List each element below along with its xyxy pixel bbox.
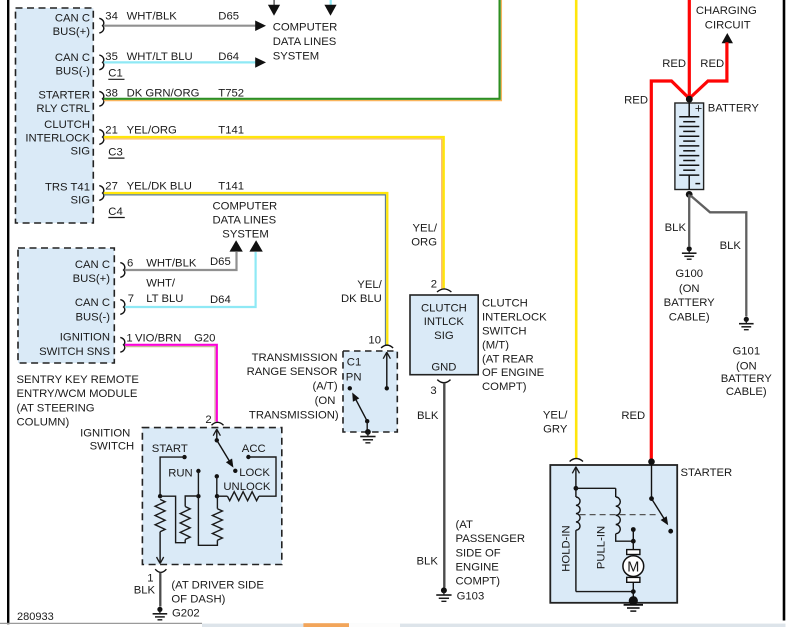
TRS connector C1 / PN labels [346,356,362,383]
wire 6 WHT/BLK D65 [125,252,237,270]
svg-text:CABLE): CABLE) [669,311,710,323]
pin 6 [120,263,124,278]
svg-text:SYSTEM: SYSTEM [273,51,319,63]
svg-text:LT BLU: LT BLU [146,293,183,305]
contact LOCK [233,467,270,479]
node: CHARGING CIRCUIT [696,5,757,31]
svg-text:3: 3 [430,385,436,397]
ignition switch box [142,428,281,565]
TRS PN contact [348,386,352,390]
svg-text:TRANSMISSION): TRANSMISSION) [249,409,339,421]
svg-text:WHT/LT BLU: WHT/LT BLU [127,51,193,63]
svg-text:OF ENGINE: OF ENGINE [482,367,545,379]
wire motor/hold-in to ground [576,589,636,601]
svg-text:YEL/ORG: YEL/ORG [127,125,177,137]
bottom edge line [0,622,202,624]
wire RED battery to starter [621,81,689,460]
clutch interlock switch box [410,295,478,375]
wire 7 WHT/LT BLU D64 [125,252,256,307]
ground G100 [675,246,703,280]
svg-text:BLK: BLK [665,222,687,234]
hold-in coil L1 [576,488,580,591]
svg-text:YEL/: YEL/ [543,409,568,421]
svg-text:27: 27 [105,181,118,193]
svg-text:D64: D64 [210,294,231,306]
caption G101 on battery cable [721,360,773,398]
svg-text:D64: D64 [218,51,239,63]
svg-text:COMPT): COMPT) [482,381,527,393]
wire START to node A [160,457,184,496]
svg-text:CAN C: CAN C [55,13,90,25]
pin 21 [99,130,103,145]
svg-text:(ON: (ON [736,360,757,372]
up arrow into computer data lines system (right) [249,240,262,251]
svg-text:C4: C4 [108,206,122,218]
svg-text:CAN C: CAN C [75,297,110,309]
svg-text:(M/T): (M/T) [482,339,509,351]
resistor R3 [212,509,222,541]
svg-text:COMPUTER: COMPUTER [213,201,278,213]
pin 34 [99,18,103,33]
svg-text:G202: G202 [172,608,200,620]
node C junction [215,494,219,498]
svg-text:C3: C3 [108,147,122,159]
right page border [783,0,786,621]
left page border [7,0,9,624]
svg-text:RED: RED [662,58,686,70]
svg-text:CAN C: CAN C [55,52,90,64]
svg-text:CAN C: CAN C [75,259,110,271]
svg-text:10: 10 [368,334,381,346]
ground G202 [153,607,200,620]
svg-text:PASSENGER: PASSENGER [456,533,525,545]
svg-text:T141: T141 [218,181,244,193]
clutch switch labels [421,302,467,373]
caption sentry key module [17,374,140,429]
svg-text:7: 7 [128,293,134,305]
wire BLK to G202 [134,573,161,607]
pull-in coil L2 [616,488,634,541]
TRS pin 10 [368,334,393,348]
svg-text:IGNITION: IGNITION [60,332,110,344]
svg-text:(AT DRIVER SIDE: (AT DRIVER SIDE [171,580,264,592]
battery plates [679,117,699,190]
svg-text:G20: G20 [194,333,215,345]
arrow to computer data lines (wire 34) [255,21,266,32]
resistor R1 (start feed) [155,499,165,531]
wire from above (WHT/BLK data line) [273,0,275,5]
svg-text:START: START [152,443,188,455]
down arrow into computer data lines system (left) [268,5,280,16]
connector C3 label [108,147,124,159]
svg-text:SWITCH: SWITCH [482,325,527,337]
svg-text:CLUTCH: CLUTCH [44,119,90,131]
svg-text:VIO/BRN: VIO/BRN [135,333,181,345]
svg-text:COMPUTER: COMPUTER [273,22,338,34]
svg-text:BUS(+): BUS(+) [73,273,111,285]
wire R3 top to node C [216,496,218,509]
svg-text:RLY CTRL: RLY CTRL [36,103,90,115]
svg-text:SYSTEM: SYSTEM [222,229,268,241]
svg-text:SIG: SIG [434,330,453,342]
svg-text:1: 1 [147,573,153,585]
arrow to computer data lines (wire 35) [255,57,266,67]
svg-text:SWITCH SNS: SWITCH SNS [39,346,110,358]
wire R1 to pin 1 with arrow [157,532,164,564]
ignition pin 2 [205,414,223,426]
wire node C to R4 [217,495,227,497]
module box (PCM connectors C1/C3/C4) [16,8,94,223]
svg-text:INTLCK: INTLCK [424,316,465,328]
svg-text:BATTERY: BATTERY [708,102,760,114]
svg-text:BUS(-): BUS(-) [55,66,90,78]
svg-text:RED: RED [700,58,724,70]
solenoid switch S1 [649,465,673,534]
contact RUN [168,467,200,479]
svg-text:D65: D65 [210,256,231,268]
svg-text:CABLE): CABLE) [726,386,767,398]
arrow to charging circuit [722,33,733,43]
node battery positive junction [686,96,693,103]
wire BLK clutch to G103 [417,383,445,588]
svg-text:RANGE SENSOR: RANGE SENSOR [247,366,338,378]
contact ACC [242,443,266,459]
wire 34 WHT/BLK D65 [104,11,256,26]
svg-text:ENGINE: ENGINE [456,562,500,574]
svg-text:35: 35 [105,51,118,63]
svg-text:DK GRN/ORG: DK GRN/ORG [127,88,200,100]
svg-text:BUS(+): BUS(+) [53,26,91,38]
wire UNLOCK to node C [216,476,218,496]
node: COMPUTER DATA LINES SYSTEM (middle) [213,201,278,241]
svg-text:34: 34 [105,11,118,23]
connector C1 label [108,68,124,80]
svg-text:CHARGING: CHARGING [696,5,757,17]
wire 35 WHT/LT BLU D64 [104,51,256,63]
svg-text:2: 2 [205,414,211,426]
solenoid linkage (dashed) [580,514,659,516]
svg-text:GND: GND [431,361,456,373]
starter ground [624,596,643,611]
svg-text:SIDE OF: SIDE OF [456,547,501,559]
TRS ground [365,429,371,435]
caption G100 on battery cable [664,283,716,323]
svg-text:TRANSMISSION: TRANSMISSION [252,352,338,364]
battery - terminal label [695,183,700,185]
svg-text:ORG: ORG [411,236,437,248]
wire from above (WHT/LT BLU data line) [330,0,332,5]
svg-text:PULL-IN: PULL-IN [595,526,607,569]
svg-text:ACC: ACC [242,443,266,455]
module box 1 labels [25,13,90,207]
node starter battery terminal [648,458,655,465]
resistor R4 (accessory) [227,492,259,501]
node battery negative junction [686,191,693,198]
connector C4 label [108,206,125,218]
svg-text:G103: G103 [457,591,485,603]
wire R4 to ACC contact [248,457,276,496]
wire 21 YEL/ORG T141 (to clutch interlock switch) [104,125,444,289]
svg-text:6: 6 [127,257,133,269]
wire node B to resistor R3 [198,496,217,545]
svg-text:INTERLOCK: INTERLOCK [482,311,547,323]
svg-text:BUS(-): BUS(-) [75,312,110,324]
wire R2 top to node B [185,496,198,507]
pin 38 [99,91,103,106]
wire RED battery to charging circuit [689,42,727,98]
svg-text:D65: D65 [218,11,239,23]
svg-text:280933: 280933 [17,611,54,623]
svg-text:G101: G101 [732,345,760,357]
starter feed arrow (hold-in) [572,467,579,489]
wire RED battery feed from above [662,0,689,99]
pin 27 [99,186,103,201]
starter motor M [623,541,644,591]
svg-text:BATTERY: BATTERY [664,297,716,309]
svg-text:21: 21 [105,125,118,137]
svg-text:DK BLU: DK BLU [341,293,382,305]
node A junction [158,494,162,498]
label YEL/DK BLU [341,279,383,305]
svg-text:C1: C1 [108,68,122,80]
svg-text:TRS T41: TRS T41 [45,181,90,193]
contact START [152,443,188,459]
wire BLK battery to G101 [691,196,747,317]
caption clutch interlock switch [482,298,547,394]
svg-text:BATTERY: BATTERY [721,373,773,385]
label TRANSMISSION RANGE SENSOR [247,352,339,422]
svg-text:YEL/DK BLU: YEL/DK BLU [127,181,192,193]
ignition pin 1 [147,569,166,585]
pin 7 [120,300,124,315]
clutch pin 3 [430,380,450,397]
wire 1 VIO/BRN G20 (to ignition switch) [125,333,217,422]
svg-text:BLK: BLK [134,585,156,597]
svg-text:2: 2 [431,279,437,291]
svg-text:G100: G100 [675,268,703,280]
svg-text:SIG: SIG [71,146,90,158]
svg-text:(AT STEERING: (AT STEERING [17,402,95,414]
wire 27 YEL/DK BLU T141 (to transmission range sensor) [104,181,388,345]
svg-text:HOLD-IN: HOLD-IN [561,525,573,571]
svg-text:COLUMN): COLUMN) [17,417,70,429]
svg-text:RUN: RUN [168,467,192,479]
wire YEL/GRY (to starter) [543,0,576,458]
svg-text:CLUTCH: CLUTCH [421,302,467,314]
svg-text:RED: RED [621,410,645,422]
svg-text:GRY: GRY [543,423,568,435]
ignition feed arrow and rotor [213,429,220,442]
svg-text:UNLOCK: UNLOCK [223,481,271,493]
svg-text:WHT/: WHT/ [146,278,176,290]
label IGNITION SWITCH [80,428,134,453]
wire RUN to node B [197,471,199,496]
svg-text:SIG: SIG [71,194,90,206]
svg-text:SENTRY KEY REMOTE: SENTRY KEY REMOTE [17,374,140,386]
down arrow into computer data lines system (right) [324,5,336,16]
wire 38 DK GRN/ORG T752 (to charging circuit) [104,0,502,101]
pin 35 [99,55,103,70]
svg-text:ENTRY/WCM MODULE: ENTRY/WCM MODULE [17,388,138,400]
svg-text:(AT REAR: (AT REAR [482,353,534,365]
svg-text:STARTER: STARTER [681,467,733,479]
svg-text:SWITCH: SWITCH [90,440,135,452]
resistor R2 [180,507,190,540]
wire node A to resistor R2 [160,496,185,543]
svg-text:YEL/: YEL/ [413,222,438,234]
svg-text:LOCK: LOCK [239,467,270,479]
ignition rotor lever to LOCK [217,440,234,467]
svg-text:+: + [695,102,702,116]
svg-text:STARTER: STARTER [38,90,90,102]
svg-text:WHT/BLK: WHT/BLK [127,11,178,23]
svg-text:T141: T141 [218,125,244,137]
sentry module labels [39,259,110,358]
svg-text:PN: PN [346,371,362,383]
starter box [550,465,677,603]
wire to pull-in coil [576,487,616,489]
ground G103 [436,587,484,602]
caption at passenger side of engine compt [456,519,525,588]
node: COMPUTER DATA LINES SYSTEM (top) [273,22,338,63]
svg-text:BLK: BLK [417,410,439,422]
bottom UI strip [202,624,786,627]
svg-text:(ON: (ON [679,283,700,295]
label YEL/ORG [411,222,438,248]
sentry key remote entry / WCM module box [18,248,114,363]
ground G101 [732,317,760,358]
wire BLK battery to G100 [665,194,690,246]
svg-text:IGNITION: IGNITION [80,428,130,440]
starter yellow pin [570,459,583,462]
svg-text:T752: T752 [218,88,244,100]
pin 1 (ignition switch sense) [120,337,124,352]
svg-text:RED: RED [624,94,648,106]
svg-text:COMPT): COMPT) [456,576,501,588]
TRS wire to ground [366,421,368,429]
svg-text:OF DASH): OF DASH) [171,594,225,606]
up arrow into computer data lines system (left) [230,240,243,251]
caption at driver side of dash [171,580,264,606]
svg-text:38: 38 [105,88,118,100]
svg-text:CIRCUIT: CIRCUIT [705,19,751,31]
clutch pin 2 [431,279,452,293]
contact UNLOCK [215,474,271,493]
svg-text:YEL/: YEL/ [357,279,382,291]
svg-text:BLK: BLK [720,240,742,252]
svg-text:BLK: BLK [417,556,439,568]
svg-text:(AT: (AT [456,519,473,531]
transmission range sensor box [343,351,397,432]
svg-text:INTERLOCK: INTERLOCK [25,133,90,145]
svg-text:WHT/BLK: WHT/BLK [146,257,197,269]
svg-text:C1: C1 [347,356,361,368]
solenoid motor contact stub [631,527,636,544]
svg-text:CLUTCH: CLUTCH [482,298,528,310]
TRS switch lever [352,393,369,424]
battery B1 [675,103,704,190]
svg-text:M: M [627,559,639,575]
svg-text:1: 1 [126,333,132,345]
svg-text:DATA LINES: DATA LINES [273,36,337,48]
TRS feed arrow to contact [383,352,390,390]
svg-text:DATA LINES: DATA LINES [213,215,277,227]
node B junction [196,494,200,498]
svg-text:(ON: (ON [315,395,336,407]
svg-text:(A/T): (A/T) [312,381,337,393]
node hold-in junction [574,486,579,491]
